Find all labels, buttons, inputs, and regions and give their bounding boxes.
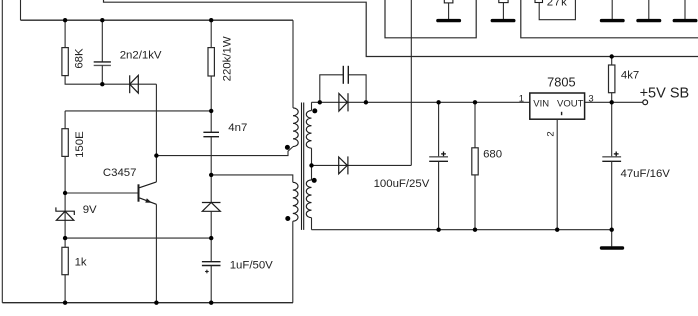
wire 100uF top lead xyxy=(438,102,440,156)
node 2n2-bottom xyxy=(100,82,104,86)
ground pin B square xyxy=(499,0,508,3)
ground symbol D xyxy=(638,19,660,22)
svg-text:3: 3 xyxy=(588,94,593,105)
phase dot primary lower xyxy=(285,216,290,221)
terminal +5V SB xyxy=(643,100,648,105)
diode D3 upper rectifier xyxy=(339,93,348,111)
ground pin E stem xyxy=(684,0,686,19)
svg-text:9V: 9V xyxy=(83,204,97,216)
node bus-2n2 xyxy=(100,18,104,22)
polarity plus of 47uF xyxy=(614,152,619,157)
regulator U2 7805 xyxy=(530,93,585,119)
phase dot secondary upper xyxy=(312,108,317,113)
svg-text:2n2/1kV: 2n2/1kV xyxy=(120,50,162,62)
transistor Q1 C3457 xyxy=(139,182,157,204)
wire 1k bottom lead xyxy=(64,275,66,303)
node bus-68K xyxy=(63,18,67,22)
wire ground bus y229.7 xyxy=(312,229,612,231)
wire 150E bottom lead xyxy=(64,156,66,193)
wire top-left stub xyxy=(20,0,22,20)
node gnd-100uF xyxy=(436,228,440,232)
ground pin A stem xyxy=(448,3,450,19)
svg-text:VIN: VIN xyxy=(533,98,549,109)
wire lower rectifier net y165.4 xyxy=(312,164,412,166)
resistor 1k xyxy=(62,247,68,274)
ground symbol E xyxy=(674,19,696,22)
transformer T1 secondary lower winding xyxy=(306,180,311,218)
wire 150E top lead xyxy=(64,111,66,129)
wire 220k bottom to 4n7 xyxy=(210,76,212,132)
wire 220k top lead xyxy=(210,20,212,47)
svg-text:C3457: C3457 xyxy=(103,167,137,179)
svg-text:VOUT: VOUT xyxy=(557,98,584,109)
node bottom-1uF xyxy=(209,301,213,305)
node bottom-1k xyxy=(63,301,67,305)
node bottom-emitter xyxy=(154,301,158,305)
ground symbol right xyxy=(602,246,623,249)
svg-text:680: 680 xyxy=(483,149,502,161)
node snubber left xyxy=(318,100,322,104)
svg-text:220k/1W: 220k/1W xyxy=(222,36,234,81)
ground symbol A xyxy=(438,19,460,22)
wire 680 bottom lead xyxy=(474,175,476,230)
wire 68K top lead xyxy=(64,20,66,47)
node zener-1k xyxy=(63,236,67,240)
node 220k-4n7 xyxy=(209,109,213,113)
resistor 68K xyxy=(62,48,68,76)
transformer T1 primary upper winding xyxy=(293,108,298,147)
resistor 150E xyxy=(62,129,68,157)
wire zener rail xyxy=(64,193,66,238)
ground pin C stem xyxy=(611,0,613,19)
component 27k box xyxy=(539,0,575,20)
wire 100uF bottom lead xyxy=(438,161,440,229)
transformer T1 secondary upper winding xyxy=(306,111,311,149)
wire collector rail xyxy=(155,84,157,182)
svg-text:+5V SB: +5V SB xyxy=(640,85,690,101)
wire secondary link upper-lower (center tap rail) xyxy=(311,148,313,180)
ground pin A square xyxy=(444,0,453,3)
node main-680 xyxy=(473,100,477,104)
capacitor 4n7 xyxy=(203,132,219,136)
node sbbus-4k7 xyxy=(610,54,614,58)
zener diode 9V xyxy=(56,207,74,220)
node gnd-47uF xyxy=(610,228,614,232)
wire main output y102.3 left of U2 xyxy=(312,101,530,103)
box module 2 xyxy=(521,0,698,38)
capacitor 1uF/50V xyxy=(202,262,221,266)
node gnd-pin2 xyxy=(555,228,559,232)
node 4n7-primary2 xyxy=(209,173,213,177)
wire zener to 1uF node y238 xyxy=(65,237,211,239)
svg-text:4n7: 4n7 xyxy=(228,122,247,134)
node main-4k7 xyxy=(610,100,614,104)
svg-text:150E: 150E xyxy=(74,131,86,158)
wire collector to primary upper winding y155.6 xyxy=(156,147,293,156)
transformer core xyxy=(302,103,304,230)
component 27k pin square xyxy=(535,0,543,3)
svg-text:1k: 1k xyxy=(75,257,87,269)
wire 4k7 top lead from +5V standby bus xyxy=(611,57,613,66)
polarity plus of 100uF xyxy=(441,152,446,157)
phase dot secondary lower xyxy=(312,178,317,183)
wire emitter rail to bottom bus xyxy=(155,204,157,302)
pin mark under VOUT xyxy=(561,112,563,115)
wire ground stem right xyxy=(611,230,613,247)
node bus-220k xyxy=(209,18,213,22)
wire 1uF bottom lead xyxy=(210,266,212,303)
diode D2 xyxy=(202,203,221,212)
wire 47uF top lead xyxy=(611,102,613,156)
box module 1 xyxy=(385,0,476,38)
ground pin D stem xyxy=(648,0,650,19)
phase dot primary upper xyxy=(285,145,290,150)
node gnd-680 xyxy=(473,228,477,232)
wire left border vertical xyxy=(1,0,3,303)
polarity plus of 1uF xyxy=(205,270,209,274)
node D2-1uF xyxy=(209,236,213,240)
capacitor snubber xyxy=(343,66,348,84)
wire D2 to 1uF xyxy=(210,211,212,261)
wire 150E node to 220k node y111 xyxy=(65,110,211,112)
wire bottom bus xyxy=(2,302,293,304)
resistor 4k7 xyxy=(609,65,615,93)
node center tap xyxy=(309,163,313,167)
wire 4n7 bottom to diode D2 xyxy=(210,137,212,203)
wire top +310V bus xyxy=(21,19,294,21)
svg-text:1: 1 xyxy=(519,94,524,105)
capacitor 47uF/16V xyxy=(602,157,621,162)
wire pin2 to ground bus xyxy=(556,119,558,230)
wire 47uF bottom lead xyxy=(611,161,613,229)
wire 4k7 bottom lead xyxy=(611,93,613,103)
diode D4 lower rectifier xyxy=(339,156,348,174)
wire base wire xyxy=(65,192,138,194)
node main-100uF xyxy=(436,100,440,104)
wire 2n2 bottom lead xyxy=(101,65,103,84)
transformer T1 primary lower winding xyxy=(293,182,298,221)
wire secondary upper top lead xyxy=(311,102,313,110)
capacitor 100uF/25V xyxy=(429,157,448,162)
ground symbol C xyxy=(602,19,624,22)
svg-text:27k: 27k xyxy=(547,0,568,9)
node base-zener xyxy=(63,191,67,195)
node collector junction xyxy=(154,153,158,157)
svg-text:7805: 7805 xyxy=(547,75,575,90)
wire standby feed vertical x411 xyxy=(410,0,412,165)
svg-text:1uF/50V: 1uF/50V xyxy=(230,259,273,271)
wire secondary lower bottom to ground bus xyxy=(311,218,313,230)
diode D1 flyback clamp xyxy=(130,75,139,93)
wire 68K bottom lead to y84 xyxy=(65,76,156,85)
wire primary top lead from bus xyxy=(292,20,294,108)
wire 2n2 top lead xyxy=(101,20,103,61)
wire upper pcb module outline xyxy=(104,0,698,57)
svg-text:47uF/16V: 47uF/16V xyxy=(621,168,671,180)
ground symbol B xyxy=(492,19,514,22)
svg-text:100uF/25V: 100uF/25V xyxy=(374,178,430,190)
svg-text:2: 2 xyxy=(546,131,557,136)
svg-text:68K: 68K xyxy=(74,48,86,69)
wire 680 top lead xyxy=(474,102,476,148)
wire primary lower bottom to bottom bus xyxy=(292,221,294,303)
resistor 220k/1W xyxy=(208,48,214,76)
svg-text:4k7: 4k7 xyxy=(621,69,639,81)
node snubber right xyxy=(364,100,368,104)
resistor 680 xyxy=(472,148,478,175)
wire snubber loop xyxy=(320,75,343,103)
wire 1k top lead xyxy=(64,238,66,247)
capacitor 2n2/1kV xyxy=(94,62,111,66)
ground pin B stem xyxy=(502,3,504,19)
wire 4n7 node to primary lower winding y174.9 xyxy=(211,175,293,182)
wire main output y102.3 right of U2 xyxy=(585,101,643,103)
